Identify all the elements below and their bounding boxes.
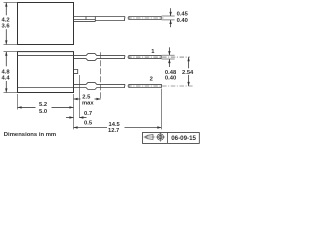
view 2 upper inner line continuing as lead 1 top edge — [18, 54, 126, 56]
dimension 0.45/0.40 upper arrowhead — [169, 12, 171, 16]
view 1 bottom edge extension line — [4, 44, 18, 46]
dimension 5.2/5.0 right segment — [52, 106, 74, 108]
svg-text:12.7: 12.7 — [108, 128, 119, 134]
view 2 bottom edge extension line — [4, 92, 18, 94]
view 1 top edge extension line — [4, 2, 18, 4]
title block divider — [167, 133, 169, 144]
view 2 left edge extension line below body — [17, 94, 19, 110]
view 1 lead tip upper extension line — [162, 15, 175, 17]
dimension 0.45/0.40 upper arrow line — [170, 8, 172, 16]
dimension 0.48/0.40 lower arrow line — [168, 59, 170, 67]
view 2 lower inner line continuing as lead 2 bottom edge — [18, 88, 126, 90]
lead 1 tip upper extension line — [162, 54, 175, 56]
view 1 lead top edge — [74, 16, 126, 18]
view 1 lead bottom edge after bend — [95, 20, 125, 22]
dimension 2.54 lower line — [188, 75, 190, 86]
dimension 2.5 max right segment — [95, 98, 101, 100]
view 1 lead bottom edge near body — [74, 21, 96, 23]
lead 2 tip extension line — [160, 89, 162, 130]
svg-text:0.45: 0.45 — [177, 11, 189, 17]
dimension 2.5 max left arrowhead — [74, 98, 78, 100]
projection symbol cone — [144, 135, 155, 140]
lead 1 far segment outline — [129, 56, 161, 59]
dimension 5.2/5.0 left segment — [18, 106, 36, 108]
projection symbol circle — [156, 132, 165, 141]
dimension 0.48/0.40 upper arrow line — [168, 47, 170, 55]
dimension 0.48/0.40 lower arrowhead — [168, 59, 170, 63]
view 1 lead middle line — [74, 19, 96, 21]
dimension 14.5/12.7 right segment — [125, 127, 162, 129]
dimension 0.7/0.5 left arrow line — [66, 117, 74, 119]
view 1 (top view) body outline — [18, 3, 74, 45]
dimension 2.5 max right arrowhead — [97, 98, 101, 100]
extension line at end of lead forming (2.5 max) — [100, 52, 102, 99]
dimension 0.48/0.40 upper arrowhead — [168, 51, 170, 55]
svg-text:4.4: 4.4 — [2, 76, 11, 82]
view 1 lead break end — [123, 17, 126, 21]
lead 2 far segment outline — [129, 84, 162, 87]
dimension 0.7/0.5 left arrowhead — [69, 116, 73, 118]
lead 2 centerline — [127, 85, 192, 87]
dimension 4.2/3.6 upper arrowhead — [5, 3, 7, 7]
view 2 (front view) body outline — [18, 52, 74, 93]
dimension 4.2/3.6 line upper segment — [5, 3, 7, 16]
svg-text:4.8: 4.8 — [2, 69, 11, 75]
dimension 5.2/5.0 right arrowhead — [69, 106, 73, 108]
dimension 0.45/0.40 lower arrowhead — [169, 20, 171, 24]
tab face extension line — [78, 75, 80, 118]
svg-text:5.0: 5.0 — [39, 109, 47, 115]
svg-text:0.40: 0.40 — [177, 18, 188, 24]
dimension 4.2/3.6 lower arrowhead — [5, 40, 7, 44]
dimension 0.7/0.5 right arrow line — [79, 117, 86, 119]
svg-text:06-09-15: 06-09-15 — [171, 135, 196, 142]
svg-text:2.54: 2.54 — [182, 70, 194, 76]
view 2 top edge extension line — [4, 51, 18, 53]
dimension 14.5/12.7 left arrowhead — [74, 126, 78, 128]
dimension 0.7/0.5 right arrowhead — [79, 116, 83, 118]
dimension 4.8/4.4 upper line — [5, 52, 7, 67]
svg-text:3.6: 3.6 — [2, 23, 11, 29]
lead 1 tip lower extension line — [162, 58, 175, 60]
lead 1 break end — [123, 56, 126, 59]
dimension 2.54 lower arrowhead — [187, 82, 189, 86]
view 1 lead tick 2 — [94, 17, 96, 22]
view 1 lead tip lower extension line — [162, 19, 175, 21]
lead 1 lower edge — [74, 59, 126, 61]
lead 1 centerline — [127, 56, 190, 58]
svg-text:2: 2 — [150, 77, 153, 83]
svg-text:Dimensions in mm: Dimensions in mm — [4, 132, 56, 138]
dimension 4.8/4.4 lower line — [5, 81, 7, 93]
svg-text:0.7: 0.7 — [84, 111, 92, 117]
dimension 4.8/4.4 lower arrowhead — [5, 88, 7, 92]
svg-text:5.2: 5.2 — [39, 102, 47, 108]
dimension 2.54 upper line — [188, 57, 190, 68]
dimension 4.8/4.4 upper arrowhead — [5, 52, 7, 56]
dimension 0.45/0.40 lower arrow line — [170, 20, 172, 27]
view 1 lead far segment centerline — [127, 17, 163, 19]
view 2 side tab — [74, 70, 78, 74]
lead 2 upper edge — [74, 82, 126, 84]
dimension 2.5 max left segment — [74, 98, 81, 100]
svg-text:0.5: 0.5 — [84, 120, 93, 126]
svg-text:14.5: 14.5 — [109, 122, 121, 128]
dimension 4.2/3.6 line lower segment — [5, 29, 7, 44]
svg-text:2.5: 2.5 — [82, 94, 91, 100]
view 1 lead far segment outline — [129, 17, 161, 20]
body right face extension line — [73, 94, 75, 129]
lead 2 break end — [123, 84, 126, 87]
title block box — [143, 133, 200, 144]
svg-text:max: max — [82, 101, 94, 107]
dimension 14.5/12.7 left segment — [74, 127, 108, 129]
dimension 2.54 upper arrowhead — [187, 57, 189, 61]
dimension 14.5/12.7 right arrowhead — [157, 126, 161, 128]
dimension 5.2/5.0 left arrowhead — [18, 106, 22, 108]
svg-text:0.40: 0.40 — [165, 76, 176, 82]
view 1 lead tick 1 — [85, 17, 87, 20]
